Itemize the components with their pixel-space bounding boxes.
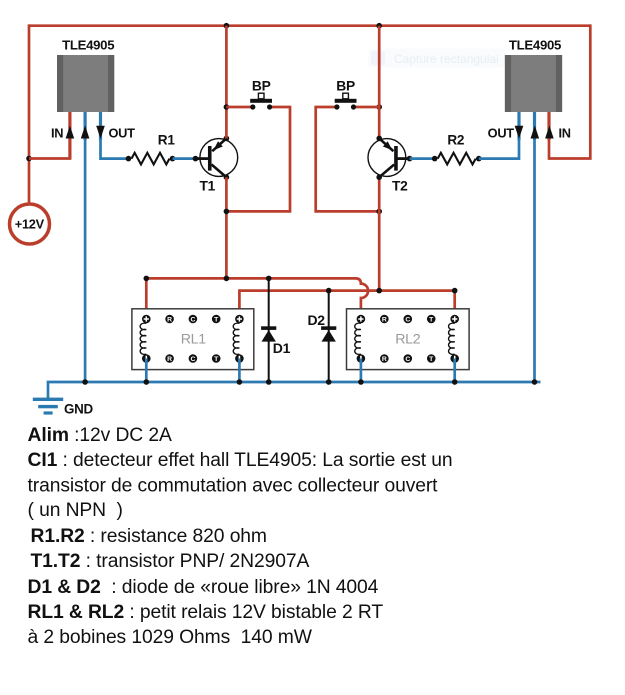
wire: T2 base to R2 (blue)	[410, 157, 435, 160]
wire: right sensor middle pin (blue)	[533, 112, 536, 382]
svg-text:OUT: OUT	[488, 126, 515, 141]
label R2	[447, 133, 465, 148]
label D1	[273, 340, 291, 356]
wire: ground bus (blue)	[48, 382, 541, 398]
node: T1 collector	[224, 174, 230, 180]
push button BP2	[334, 93, 356, 109]
svg-text:T1.T2 : transistor PNP/ 2N2907: T1.T2 : transistor PNP/ 2N2907A	[31, 551, 310, 572]
node: node B junction at T2 drop	[376, 288, 382, 294]
node: top rail junction to T2 branch	[376, 23, 382, 29]
svg-text:R: R	[382, 356, 387, 363]
node: node B right corner (RL2 +)	[452, 288, 458, 294]
svg-text:R: R	[167, 356, 172, 363]
wire: rail to T1 emitter (red)	[225, 26, 228, 139]
wire: RL2 left I to ground bus (blue)	[360, 359, 363, 383]
node: T2 emitter to rail	[376, 136, 382, 142]
wire: RL1 right I to ground bus (blue)	[238, 359, 241, 383]
svg-text:C: C	[190, 316, 195, 323]
svg-text:D1 & D2 : diode de «roue libr: D1 & D2 : diode de «roue libre» 1N 4004	[28, 577, 379, 598]
relay RL2 pins	[357, 315, 459, 363]
pin arrow IN (left sensor)	[66, 126, 75, 139]
svg-text:GND: GND	[64, 401, 93, 416]
svg-text:Alim :12v DC 2A: Alim :12v DC 2A	[28, 425, 172, 446]
svg-text:TLE4905: TLE4905	[62, 38, 114, 53]
svg-text:IN: IN	[51, 126, 63, 141]
svg-text:BP: BP	[252, 79, 271, 94]
node: BP2 upper junction	[376, 104, 382, 110]
label GND	[64, 401, 93, 416]
pin arrow OUT (right sensor)	[515, 126, 524, 139]
relay RL2 left coil	[355, 323, 361, 354]
label TLE4905 (left)	[62, 38, 114, 53]
resistor R1	[132, 153, 170, 165]
ground symbol	[33, 398, 63, 415]
wire: node B horizontal (T2 collector to relays)	[239, 291, 454, 315]
watermark capture tooltip	[368, 49, 505, 68]
node: R1 right terminal	[170, 156, 176, 162]
wire: left sensor IN pin (red)	[29, 112, 71, 159]
svg-text:RL1 & RL2 : petit relais 12V b: RL1 & RL2 : petit relais 12V bistable 2 …	[28, 602, 384, 623]
wire: top +12V rail	[29, 24, 590, 27]
node: top rail junction to T1 branch	[224, 23, 230, 29]
wire: left sensor middle pin (blue)	[83, 112, 86, 382]
transistor T1	[196, 138, 238, 193]
node: bus junction RL1 right I	[237, 379, 243, 385]
node: BP1 upper junction	[224, 104, 230, 110]
pin arrow middle (left sensor)	[81, 126, 90, 139]
wire: T1 collector down (red)	[225, 177, 228, 278]
svg-text:C: C	[190, 356, 195, 363]
label IN (right)	[559, 126, 571, 141]
node: BP2 lower junction	[376, 209, 382, 215]
pin arrow middle (right sensor)	[531, 126, 540, 139]
diode D1	[261, 278, 276, 382]
relay RL2 right coil	[449, 323, 455, 354]
node: bus junction right sensor mid	[532, 379, 538, 385]
svg-text:CI1 : detecteur effet hall TLE: CI1 : detecteur effet hall TLE4905: La s…	[28, 450, 453, 471]
svg-text:+12V: +12V	[15, 217, 45, 232]
wire: left sensor OUT pin (blue)	[101, 112, 129, 159]
node: node A junction at T1 drop	[224, 276, 230, 282]
label TLE4905 (right)	[509, 38, 561, 53]
relay RL1 box	[132, 309, 254, 370]
wire: RL1 left I to ground bus (blue)	[145, 359, 148, 383]
node: bus junction RL2 left I	[358, 379, 364, 385]
node: T1 base	[193, 156, 199, 162]
wire: node A horizontal (T1 collector to relays)	[146, 277, 368, 315]
svg-text:C: C	[405, 316, 410, 323]
resistor R2	[438, 153, 476, 165]
relay RL2 box	[347, 309, 470, 370]
svg-text:Capture rectangulai: Capture rectangulai	[394, 52, 499, 66]
svg-text:R: R	[167, 316, 172, 323]
svg-text:R: R	[382, 316, 387, 323]
node: bus junction left sensor mid	[82, 379, 88, 385]
label D2	[308, 312, 326, 328]
node: T2 collector	[376, 174, 382, 180]
wire: T2 collector down (red)	[378, 177, 381, 290]
svg-text:T1: T1	[200, 179, 216, 194]
wire: BP1 loop (red)	[226, 107, 290, 211]
relay RL1 pins	[142, 315, 244, 363]
label OUT (right)	[488, 126, 515, 141]
node: T2 base	[407, 156, 413, 162]
node: R2 left terminal	[432, 156, 438, 162]
label BP (left)	[252, 79, 271, 94]
node: bus junction RL1 left I	[144, 379, 150, 385]
svg-text:IN: IN	[559, 126, 571, 141]
node: bus junction RL2 right I	[452, 379, 458, 385]
hall sensor CI1 TLE4905 (left) body	[57, 55, 114, 112]
svg-text:OUT: OUT	[109, 126, 136, 141]
transistor T2	[368, 138, 410, 193]
svg-text:C: C	[405, 356, 410, 363]
wire: left supply drop	[28, 24, 31, 203]
node: node A left end (RL1 +)	[144, 276, 150, 282]
svg-text:R1.R2 : resistance 820 ohm: R1.R2 : resistance 820 ohm	[31, 526, 267, 547]
wire: outer red right side	[549, 24, 590, 158]
label RL2	[395, 332, 421, 348]
pin arrow OUT (left sensor)	[96, 126, 105, 139]
wire: right sensor IN pin (red)	[547, 112, 550, 160]
svg-text:D2: D2	[308, 312, 326, 328]
label IN (left)	[51, 126, 63, 141]
wire: R1 to T1 base (blue)	[173, 157, 196, 160]
svg-text:transistor de commutation avec: transistor de commutation avec collecteu…	[28, 475, 439, 496]
node: bus junction D1 anode	[266, 379, 272, 385]
node: bus junction D2 anode	[326, 379, 332, 385]
wire: RL2 right I to ground bus (blue)	[453, 359, 456, 383]
label OUT (left)	[109, 126, 136, 141]
wire: rail to T2 emitter (red)	[378, 26, 381, 139]
node: node B to D2	[326, 288, 332, 294]
svg-text:à 2 bobines 1029 Ohms 140 mW: à 2 bobines 1029 Ohms 140 mW	[28, 627, 313, 648]
svg-text:R1: R1	[158, 133, 176, 148]
node: R2 right terminal	[476, 156, 482, 162]
svg-text:RL2: RL2	[395, 332, 421, 348]
wire: BP2 loop (red)	[316, 107, 380, 211]
svg-text:TLE4905: TLE4905	[509, 38, 561, 53]
label R1	[158, 133, 176, 148]
svg-text:D1: D1	[273, 340, 291, 356]
relay RL1 right coil	[233, 323, 239, 354]
svg-text:T2: T2	[392, 179, 408, 194]
wire: R2 to right sensor OUT (blue)	[479, 112, 519, 159]
label BP (right)	[336, 79, 355, 94]
node: BP1 lower junction	[224, 209, 230, 215]
push button BP1	[250, 93, 272, 109]
svg-text:( un NPN ): ( un NPN )	[28, 500, 123, 521]
diode D2	[321, 291, 336, 382]
svg-text:RL1: RL1	[181, 332, 207, 348]
svg-text:R2: R2	[447, 133, 465, 148]
node: junction left supply / sensor IN	[26, 156, 32, 162]
relay RL1 left coil	[140, 323, 146, 354]
node: node A to D1	[266, 276, 272, 282]
node: T1 emitter to rail	[224, 136, 230, 142]
svg-text:BP: BP	[336, 79, 355, 94]
hall sensor CI2 TLE4905 (right) body	[505, 55, 562, 112]
power source +12V	[10, 204, 50, 244]
pin arrow IN (right sensor)	[545, 126, 554, 139]
label RL1	[181, 332, 207, 348]
node: R1 left terminal	[126, 156, 132, 162]
